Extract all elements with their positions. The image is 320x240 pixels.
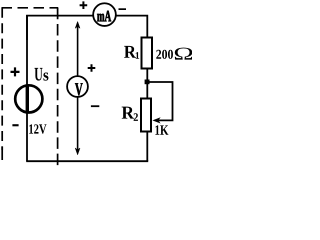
wire: R1 bottom to R2 top xyxy=(146,69,148,99)
wire: R2 bottom to bottom wire xyxy=(146,132,148,161)
value 1K xyxy=(155,125,168,134)
label Us subscript s xyxy=(43,73,48,81)
plus sign of ammeter xyxy=(80,1,88,9)
wire: top-left segment to ammeter xyxy=(27,16,93,40)
minus sign of ammeter xyxy=(119,8,127,10)
voltmeter letter V xyxy=(75,83,83,95)
voltage source Us circle xyxy=(15,85,42,112)
voltmeter V circle xyxy=(67,76,88,97)
minus sign of source xyxy=(12,124,18,126)
potentiometer R2 body xyxy=(141,99,151,132)
value 200 ohm digits xyxy=(156,50,173,59)
plus sign of voltmeter xyxy=(88,64,96,72)
value 12V xyxy=(29,124,46,133)
dashed box around source: left edge xyxy=(1,8,3,150)
up arrowhead xyxy=(75,22,80,29)
dashed box left edge: final dash xyxy=(1,146,3,160)
junction node dot xyxy=(145,80,150,85)
wiper arrowhead of potentiometer R2 xyxy=(153,118,160,123)
voltage source inner bar xyxy=(26,86,29,111)
label R2 subscript 2 xyxy=(134,113,138,121)
label R2 (R) xyxy=(122,107,134,119)
wire: left branch upper to source top xyxy=(26,15,28,86)
voltmeter annotation line xyxy=(77,26,79,150)
dashed box around source: right edge xyxy=(57,8,59,165)
ammeter label mA xyxy=(97,11,111,22)
ammeter mA circle xyxy=(93,3,116,26)
wire: source bottom to bottom wire xyxy=(26,112,28,161)
dashed box around source: top edge xyxy=(2,7,59,9)
label Us (U) xyxy=(35,68,43,81)
down arrowhead xyxy=(75,148,80,155)
wire: feedback from junction to wiper xyxy=(147,82,172,120)
wire: ammeter to R1 top xyxy=(116,16,147,38)
minus sign of voltmeter xyxy=(91,105,99,107)
label R1 subscript 1 xyxy=(136,52,140,59)
label R1 (R) xyxy=(124,46,136,58)
resistor R1 body xyxy=(142,38,153,69)
plus sign of source xyxy=(11,67,20,76)
value ohm symbol xyxy=(175,48,193,60)
wire: bottom wire xyxy=(26,160,148,162)
